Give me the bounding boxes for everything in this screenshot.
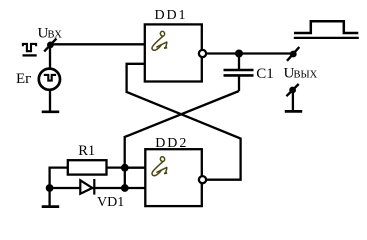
wire diode node to ground [48, 188, 50, 205]
generator G1 Eг circle [39, 69, 60, 90]
label Uвых [284, 65, 318, 81]
diode VD1 [80, 179, 94, 195]
wire DD1 output to output terminal [207, 52, 291, 54]
wire resistor right to DD2 input 1 [107, 166, 125, 168]
wire capacitor down [238, 77, 240, 92]
wire between DD2 input nodes [124, 168, 126, 188]
wire junction to capacitor [238, 54, 240, 70]
node lower output test point [286, 84, 298, 96]
svg-text:C1: C1 [256, 66, 274, 82]
gate DD2 box [145, 149, 202, 206]
node dot diode anode [46, 184, 54, 192]
node junction dot at capacitor [235, 50, 243, 58]
wire to DD2 input 1 [125, 167, 146, 169]
wire resistor left down [50, 168, 68, 188]
wire to DD2 input 2 [125, 187, 146, 189]
gate DD1 ampersand [152, 31, 167, 51]
wire vertical down to DD2 input 1 [124, 136, 126, 168]
wire lower terminal to ground bar [292, 92, 294, 110]
wire diagonal capacitor to DD2 input 1 [125, 91, 239, 137]
svg-text:VD1: VD1 [97, 195, 124, 210]
wire input node to DD1 input 1 [50, 43, 145, 45]
gate DD2 output bubble [199, 176, 206, 183]
label Uвх [38, 25, 63, 41]
node dot DD2 input 1 [121, 164, 129, 172]
capacitor C1 [224, 70, 254, 75]
gate DD1 box [145, 24, 202, 81]
resistor R1 box [68, 160, 107, 174]
gate DD2 ampersand [152, 156, 167, 176]
node output test point [287, 47, 299, 61]
svg-text:R1: R1 [78, 143, 95, 159]
input pulse icon [23, 44, 37, 56]
generator pulse glyph [44, 75, 56, 81]
gate DD1 output bubble [199, 50, 206, 57]
svg-text:ВЫХ: ВЫХ [294, 69, 318, 80]
wire diode line [50, 187, 125, 189]
ground bar left [42, 110, 60, 113]
svg-text:DD1: DD1 [155, 8, 188, 23]
svg-text:Eг: Eг [16, 71, 31, 87]
wire input node down to generator [49, 44, 51, 68]
node input test point [44, 39, 56, 52]
ground bar right [285, 110, 302, 113]
wire DD1 input 2 loop to DD2 output [127, 64, 241, 180]
ground bar bottom left [42, 205, 60, 208]
output pulse waveform [294, 21, 359, 38]
node dot DD2 input 2 [121, 184, 129, 192]
wire generator to ground [49, 90, 51, 111]
